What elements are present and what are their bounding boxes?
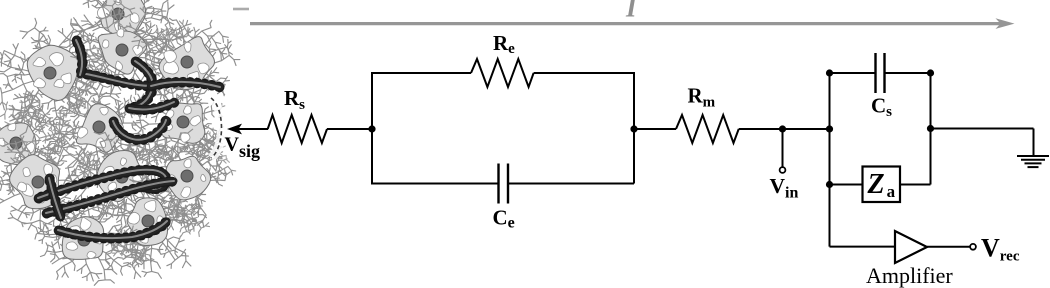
wire: left branch vertical	[371, 73, 373, 184]
wire: node B to Rm	[634, 128, 676, 130]
svg-text:Vrec: Vrec	[981, 234, 1020, 265]
wire: node G to Za	[830, 184, 863, 186]
wire: top to Cs left plate	[830, 72, 876, 74]
svg-text:Cs: Cs	[871, 93, 892, 120]
node E (top-right corner of Cs loop)	[927, 69, 934, 76]
svg-text:Rm: Rm	[688, 83, 716, 110]
wire: amplifier output	[927, 246, 970, 248]
svg-text:Amplifier: Amplifier	[866, 263, 953, 288]
wire: top branch right segment	[534, 72, 635, 74]
wire: Za to right shunt vertical	[900, 184, 931, 186]
wire: Rm to node Vin	[739, 128, 783, 130]
current arrow I (gray)	[250, 18, 1015, 29]
neural tissue illustration (cells with nuclei, dendrites, dark neurite bundles)	[0, 0, 240, 285]
wire: Vsig arrow to Rs	[227, 124, 268, 135]
svg-text:Vin: Vin	[770, 174, 799, 202]
node C (input branch junction)	[826, 125, 833, 132]
wire: bottom branch right segment	[508, 183, 634, 185]
dashed arc around recorded region	[211, 98, 222, 158]
wire: stub down to Vin terminal	[782, 129, 784, 167]
ground	[1017, 156, 1049, 167]
capacitor Cs	[876, 53, 885, 93]
resistor Re	[471, 59, 534, 87]
node B (right junction of electrode RC)	[630, 125, 637, 132]
wire: amplifier input (corner at bottom of left shunt)	[830, 246, 896, 248]
terminal Vrec (open circle)	[970, 244, 976, 250]
node Vin junction	[779, 125, 786, 132]
svg-text:Ce: Ce	[493, 205, 515, 231]
svg-text:Re: Re	[493, 31, 515, 57]
capacitor Ce	[499, 164, 509, 204]
wire: right shunt vertical	[930, 73, 932, 185]
node A (left junction of electrode RC)	[368, 125, 375, 132]
svg-text:I: I	[625, 0, 638, 23]
wire: node Vin to node C	[783, 128, 830, 130]
node D (top-left corner of Cs loop)	[826, 69, 833, 76]
resistor Rm	[676, 115, 739, 143]
impedance Za (box)	[863, 167, 901, 203]
op-amp U1 (amplifier triangle)	[895, 231, 927, 263]
wire: node F to ground drop	[931, 128, 1034, 130]
svg-text:Rs: Rs	[284, 86, 305, 113]
wire: ground drop vertical	[1033, 129, 1035, 157]
resistor Rs	[268, 115, 327, 143]
wire: Cs right plate to node E	[885, 72, 931, 74]
stray gray mark top-right of tissue	[233, 8, 249, 11]
white clearing for arc	[211, 98, 222, 158]
node G (Za input junction)	[826, 181, 833, 188]
wire: top branch left segment	[371, 72, 471, 74]
wire: right branch vertical	[633, 73, 635, 184]
terminal Vin (open circle)	[780, 167, 786, 173]
wire: left shunt vertical (node C up to Cs, down to amplifier)	[829, 73, 831, 247]
wire: bottom branch left segment	[371, 183, 499, 185]
node F (right junction on main line)	[927, 125, 934, 132]
wire: Rs to node A	[327, 128, 372, 130]
